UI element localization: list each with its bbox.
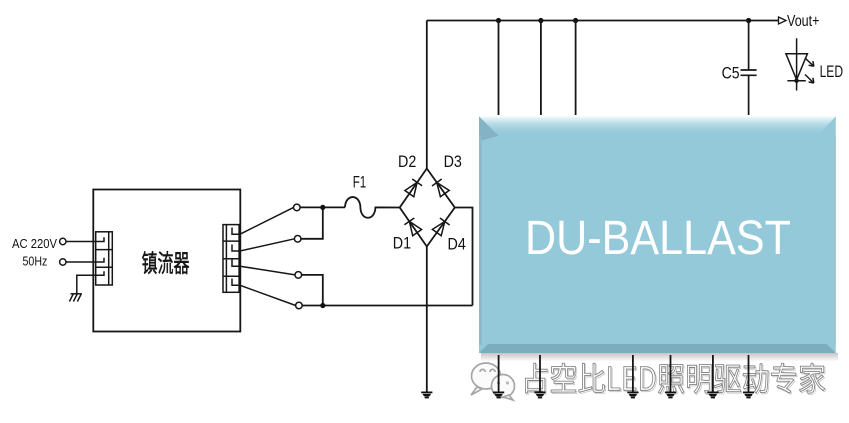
wire pin2 to terminal	[232, 239, 295, 251]
wire pin1 to terminal	[232, 207, 294, 234]
terminal circle 1	[294, 204, 301, 211]
wire pin4 to terminal	[232, 279, 296, 306]
wire drop 2	[540, 21, 542, 116]
wire bridge right loop	[455, 208, 473, 306]
connector J1 left	[96, 232, 113, 285]
svg-text:D3: D3	[444, 153, 462, 171]
terminal circle 4	[296, 302, 303, 309]
wire N input	[66, 258, 104, 262]
svg-text:50Hz: 50Hz	[23, 254, 48, 268]
wire module ground stub 4	[670, 355, 672, 392]
wire module ground stub 5	[712, 355, 714, 392]
ballast box 镇流器	[93, 190, 240, 332]
junction dot rail 2	[538, 18, 543, 23]
junction dot top	[320, 205, 325, 210]
svg-text:LED: LED	[820, 63, 844, 81]
wire terminal1 to F1	[300, 206, 345, 208]
wire module ground stub 6	[748, 355, 750, 392]
wire module ground stub 3	[632, 355, 634, 392]
ground bridge	[421, 392, 432, 394]
ground module 6	[743, 392, 754, 394]
terminal circle 2	[294, 236, 301, 243]
chassis ground	[69, 294, 81, 302]
junction dot rail C5	[746, 18, 751, 23]
junction dot rail 1	[496, 18, 501, 23]
wire module ground stub 1	[498, 355, 500, 392]
module shadow	[481, 353, 838, 362]
wire drop 3	[575, 21, 577, 116]
terminal circle 3	[295, 272, 302, 279]
label 镇流器	[142, 251, 189, 274]
LED symbol	[786, 38, 814, 90]
arrow Vout+	[779, 17, 787, 24]
ground module 1	[493, 392, 504, 394]
ground module 5	[707, 392, 718, 394]
terminal circle N	[60, 259, 66, 265]
terminal circle L	[60, 238, 66, 244]
wire terminal2 up	[301, 207, 323, 238]
svg-text:AC 220V: AC 220V	[12, 237, 58, 251]
wire drop 1	[498, 21, 500, 116]
wire PE	[77, 271, 104, 293]
wire module ground stub 2	[539, 355, 541, 392]
capacitor C5	[741, 21, 757, 116]
diode D1	[404, 218, 421, 236]
fuse F1	[345, 197, 400, 218]
svg-text:F1: F1	[353, 173, 367, 192]
junction dot rail 3	[573, 18, 578, 23]
wire bridge top vertical	[426, 21, 428, 169]
LED junction dot	[794, 79, 798, 83]
svg-text:Vout+: Vout+	[787, 13, 820, 30]
watermark logo	[471, 363, 515, 400]
top rail Vout	[427, 20, 780, 22]
wire L input	[66, 237, 104, 241]
ground module 4	[665, 392, 676, 394]
diode D4	[432, 218, 449, 236]
wire bridge bottom to ground	[426, 247, 428, 392]
svg-text:D2: D2	[398, 153, 416, 171]
wire pin3 to terminal	[232, 260, 295, 275]
watermark text 占空比LED照明驱动专家	[526, 363, 826, 394]
svg-text:C5: C5	[722, 64, 740, 83]
svg-text:D1: D1	[393, 234, 411, 252]
wire terminal4 bottom rail	[302, 305, 472, 307]
junction dot bottom	[320, 303, 325, 308]
svg-text:DU-BALLAST: DU-BALLAST	[525, 211, 791, 265]
bridge rectifier diamond	[400, 169, 455, 247]
wire terminal3 down	[302, 275, 323, 306]
ground module 2	[534, 392, 545, 394]
module U1 DU-BALLAST box	[479, 117, 836, 354]
ground module 3	[627, 392, 638, 394]
connector J2 right	[223, 225, 239, 293]
svg-text:D4: D4	[448, 236, 466, 254]
diode D2	[405, 179, 422, 197]
diode D3	[432, 179, 449, 197]
